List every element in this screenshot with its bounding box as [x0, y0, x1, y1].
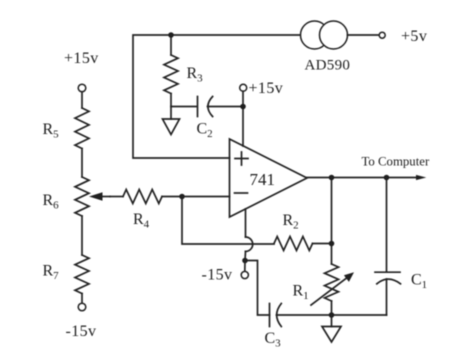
wire top bus from node A to AD590	[133, 35, 301, 158]
node B junction dot R4 / inverting input	[179, 194, 185, 200]
ground under R1	[322, 315, 341, 342]
svg-text:+5v: +5v	[401, 28, 427, 45]
AD590 U2 sensor symbol	[301, 21, 348, 49]
potentiometer R1	[325, 264, 339, 301]
wire to R5	[81, 92, 83, 108]
wire R5 to R6	[81, 149, 83, 178]
plus input symbol	[235, 152, 248, 165]
open circle divider top	[78, 84, 86, 92]
arrow across R1	[311, 272, 354, 305]
resistor R3	[164, 35, 178, 107]
wire R3 to C2	[171, 106, 197, 108]
arrowhead to computer	[416, 175, 426, 180]
wire op-amp output to computer with arrow	[307, 177, 419, 179]
terminal -15v open circle	[241, 271, 248, 278]
wire node B to op-amp inverting input	[182, 196, 230, 198]
wire R7 to bottom terminal	[81, 294, 83, 304]
op-amp V- pin wire with hop over feedback wire	[245, 209, 253, 261]
junction dot C2/+15v	[240, 104, 246, 110]
potentiometer R6	[75, 177, 89, 216]
capacitor C1	[375, 272, 401, 284]
junction dot R2/R1 node	[329, 241, 335, 247]
wire -15v node to terminal	[244, 261, 246, 272]
svg-text:741: 741	[250, 170, 276, 189]
ground under R3	[163, 107, 180, 135]
capacitor C2	[198, 97, 213, 117]
svg-text:To Computer: To Computer	[362, 155, 430, 169]
wire C1 branch down from output	[386, 178, 388, 273]
wire +15v to op-amp V+ pin	[242, 91, 244, 146]
resistor R5	[75, 108, 89, 149]
wire -15v node to C3	[245, 261, 270, 316]
resistor R2	[274, 237, 332, 251]
svg-text:-15v: -15v	[202, 267, 233, 284]
junction dot output/C1 branch	[384, 175, 390, 181]
svg-text:AD590: AD590	[305, 58, 351, 74]
wire C3 to ground node	[277, 314, 387, 316]
junction dot ground node	[329, 312, 335, 318]
svg-text:+15v: +15v	[249, 80, 284, 97]
resistor R7	[75, 255, 89, 294]
svg-text:+15v: +15v	[64, 50, 99, 67]
node A junction dot on top bus	[168, 32, 174, 38]
wire R6 to R7	[81, 216, 83, 255]
wiper arrow of R6	[89, 192, 110, 200]
wire node B down to feedback run	[182, 197, 274, 245]
resistor R4	[110, 190, 182, 204]
wire C1 to ground run	[386, 279, 388, 315]
terminal +5v	[379, 32, 385, 38]
junction dot output/R2 branch	[329, 175, 335, 181]
op-amp U1 741 triangle	[230, 139, 308, 217]
capacitor C3	[270, 304, 282, 327]
wire output branch down to R2/R1 node	[331, 178, 333, 265]
minus input symbol	[235, 192, 248, 194]
open circle divider bottom	[78, 303, 86, 311]
junction dot -15v node	[242, 258, 248, 264]
wire R1 to ground node	[331, 301, 333, 315]
wire AD590 to +5v terminal	[348, 34, 380, 36]
wire C2 to +15v rail	[208, 106, 244, 108]
svg-text:-15v: -15v	[66, 323, 97, 340]
terminal +15v (op-amp supply)	[240, 84, 247, 91]
